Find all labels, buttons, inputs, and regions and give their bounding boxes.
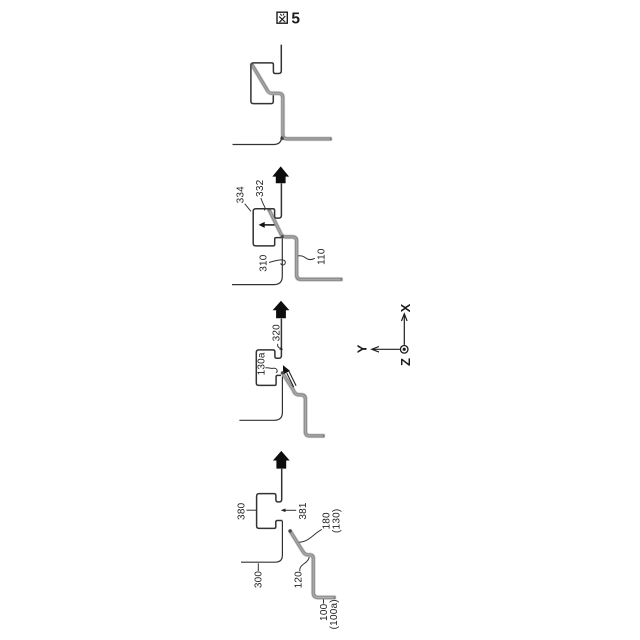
manipulation arrow (outlined shaft, black head) <box>289 372 296 386</box>
die 300 outline <box>232 238 282 285</box>
process arrow between step2 and step3 <box>273 301 290 319</box>
leader 130a <box>265 368 277 373</box>
process arrow between step1 and step2 <box>273 451 290 469</box>
svg-text:(130): (130) <box>332 509 343 533</box>
svg-text:300: 300 <box>254 571 265 589</box>
flange tip cap step2 <box>281 371 284 374</box>
svg-text:332: 332 <box>255 179 266 197</box>
svg-text:130a: 130a <box>257 352 268 375</box>
workpiece 110 hemmed sheet (double line) <box>251 64 331 139</box>
bend junction blob step4 <box>280 137 284 141</box>
leader 300 <box>257 563 259 571</box>
leader 334 <box>245 204 251 212</box>
svg-text:380: 380 <box>237 502 248 520</box>
tool outline with stem <box>251 45 281 104</box>
process arrow between step3 and step4 <box>272 166 289 183</box>
leader 180 <box>299 529 322 542</box>
leader 100 <box>323 599 325 603</box>
flange tip cap step1 <box>288 529 291 532</box>
leader 380 <box>247 509 257 511</box>
workpiece 110 sheet folded (double line) <box>269 209 343 280</box>
tool 380 outline <box>257 469 283 529</box>
svg-text:X: X <box>398 303 413 312</box>
svg-text:Y: Y <box>355 344 370 353</box>
die 300 outline <box>239 377 282 421</box>
svg-text:310: 310 <box>259 254 270 272</box>
die 300 outline <box>233 136 282 145</box>
axis X arrow (up) <box>403 315 405 345</box>
bend junction blob step3 <box>281 235 284 238</box>
die 300 outline <box>241 521 282 562</box>
leader 120 <box>300 557 309 571</box>
leader 110 <box>298 256 315 260</box>
axis Y arrow (left) <box>373 348 400 350</box>
coordinate axis: circle with dot (Z out of page) <box>400 346 408 354</box>
leader arrow 381 <box>284 509 296 511</box>
svg-text:(100a): (100a) <box>329 599 340 629</box>
leader 332 <box>261 198 265 210</box>
svg-text:320: 320 <box>271 324 282 342</box>
svg-text:110: 110 <box>317 248 328 265</box>
leader 320 with small arrowhead <box>278 344 280 349</box>
leader 310 with hook <box>269 260 285 265</box>
workpiece sheet with flange (double line) <box>282 372 325 436</box>
svg-text:Z: Z <box>398 358 413 366</box>
figure title 図5 box glyph <box>277 12 287 23</box>
svg-text:120: 120 <box>294 571 305 589</box>
workpiece 100 sheet with flange 120/180 (double line) <box>290 530 336 597</box>
svg-text:5: 5 <box>291 10 300 27</box>
svg-text:334: 334 <box>235 186 246 204</box>
tool 330 (334 body / 332 face) outline <box>253 183 281 246</box>
svg-text:381: 381 <box>298 502 309 520</box>
tool 320 outline <box>256 319 281 386</box>
black left arrow inside tool 334 <box>264 224 274 226</box>
